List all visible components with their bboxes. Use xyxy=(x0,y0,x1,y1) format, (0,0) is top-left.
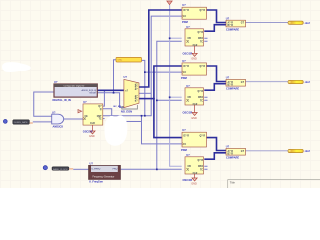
svg-text:D? R: D? R xyxy=(184,66,190,68)
svg-text:CB: CB xyxy=(188,38,192,40)
svg-text:B? R: B? R xyxy=(228,25,234,27)
svg-text:TC: TC xyxy=(200,169,203,171)
svg-text:PDM: PDM xyxy=(182,20,188,24)
svg-text:U?: U? xyxy=(226,16,230,20)
svg-text:Title: Title xyxy=(230,180,236,184)
svg-text:CB: CB xyxy=(188,166,192,168)
svg-text:OSC/1R: OSC/1R xyxy=(183,51,193,55)
svg-text:U_FreqGen: U_FreqGen xyxy=(89,180,103,184)
svg-text:TC: TC xyxy=(200,100,203,102)
svg-text:COMPARE: COMPARE xyxy=(226,156,239,160)
svg-text:AND2C8: AND2C8 xyxy=(53,124,64,128)
svg-text:ob2: ob2 xyxy=(305,80,311,84)
svg-text:B? R: B? R xyxy=(228,84,234,86)
svg-text:COMPARE: COMPARE xyxy=(226,87,239,91)
svg-text:MODE: MODE xyxy=(89,93,96,95)
svg-text:B? R: B? R xyxy=(228,153,234,155)
svg-text:U_FREQ: U_FREQ xyxy=(92,169,101,171)
svg-text:BC_KN: BC_KN xyxy=(114,106,122,108)
svg-text:OSC/1R: OSC/1R xyxy=(183,110,193,114)
svg-text:Q: Q xyxy=(100,109,102,111)
svg-text:FRQ: FRQ xyxy=(113,169,118,171)
svg-text:U?: U? xyxy=(186,153,190,157)
svg-text:U?: U? xyxy=(124,75,128,79)
svg-text:NO_EON: NO_EON xyxy=(121,110,132,114)
svg-text:Q? R: Q? R xyxy=(200,135,206,137)
svg-text:U?: U? xyxy=(182,59,186,63)
svg-text:CBO: CBO xyxy=(198,166,203,168)
svg-text:U?: U? xyxy=(182,128,186,132)
svg-text:CB: CB xyxy=(188,97,192,99)
svg-text:U?: U? xyxy=(226,145,230,149)
svg-text:CLR: CLR xyxy=(90,123,95,125)
svg-text:D? R: D? R xyxy=(184,135,190,137)
svg-text:D? R: D? R xyxy=(184,10,190,12)
svg-text:U?: U? xyxy=(186,84,190,88)
svg-text:U?: U? xyxy=(226,76,230,80)
svg-text:PDM: PDM xyxy=(181,148,187,152)
svg-text:CLR: CLR xyxy=(193,45,198,47)
svg-text:U?: U? xyxy=(182,3,186,7)
svg-text:DIURN_RATE: DIURN_RATE xyxy=(14,121,28,124)
svg-text:TC: TC xyxy=(200,41,203,43)
svg-text:OSC/1R: OSC/1R xyxy=(183,178,193,182)
svg-text:U?: U? xyxy=(90,162,94,166)
svg-text:TC: TC xyxy=(98,119,101,121)
svg-text:PDM: PDM xyxy=(181,76,187,80)
svg-text:Q? R: Q? R xyxy=(198,32,204,34)
svg-text:GND: GND xyxy=(191,117,197,120)
svg-text:Q? R: Q? R xyxy=(198,91,204,93)
svg-text:Q? R: Q? R xyxy=(200,66,206,68)
svg-text:ob2: ob2 xyxy=(305,21,311,25)
svg-text:COMPARE: COMPARE xyxy=(226,28,239,32)
svg-text:OSC: OSC xyxy=(118,60,123,62)
svg-text:Frequency Generator: Frequency Generator xyxy=(93,175,115,178)
svg-text:CBO: CBO xyxy=(198,97,203,99)
svg-text:ADDR_ID[3..0]: ADDR_ID[3..0] xyxy=(82,89,97,92)
svg-text:U?: U? xyxy=(54,80,58,84)
svg-text:CLR: CLR xyxy=(193,104,198,106)
svg-text:CBO: CBO xyxy=(198,38,203,40)
svg-text:OSC/1R: OSC/1R xyxy=(83,129,93,133)
svg-text:BASE_CLOCK: BASE_CLOCK xyxy=(53,168,68,171)
svg-text:U?: U? xyxy=(83,100,87,104)
svg-text:DIGITAL_ID_IN: DIGITAL_ID_IN xyxy=(53,98,71,102)
svg-text:Configurable Digital ID: Configurable Digital ID xyxy=(64,85,85,88)
svg-text:CLR: CLR xyxy=(193,173,198,175)
svg-text:Q? R: Q? R xyxy=(198,160,204,162)
svg-text:GND: GND xyxy=(191,182,197,185)
svg-text:Q? R: Q? R xyxy=(200,10,206,12)
svg-text:U?: U? xyxy=(52,110,56,114)
svg-text:U?: U? xyxy=(186,25,190,29)
svg-text:GND: GND xyxy=(191,58,197,61)
svg-text:GND: GND xyxy=(89,135,95,138)
svg-text:ob2: ob2 xyxy=(305,149,311,153)
